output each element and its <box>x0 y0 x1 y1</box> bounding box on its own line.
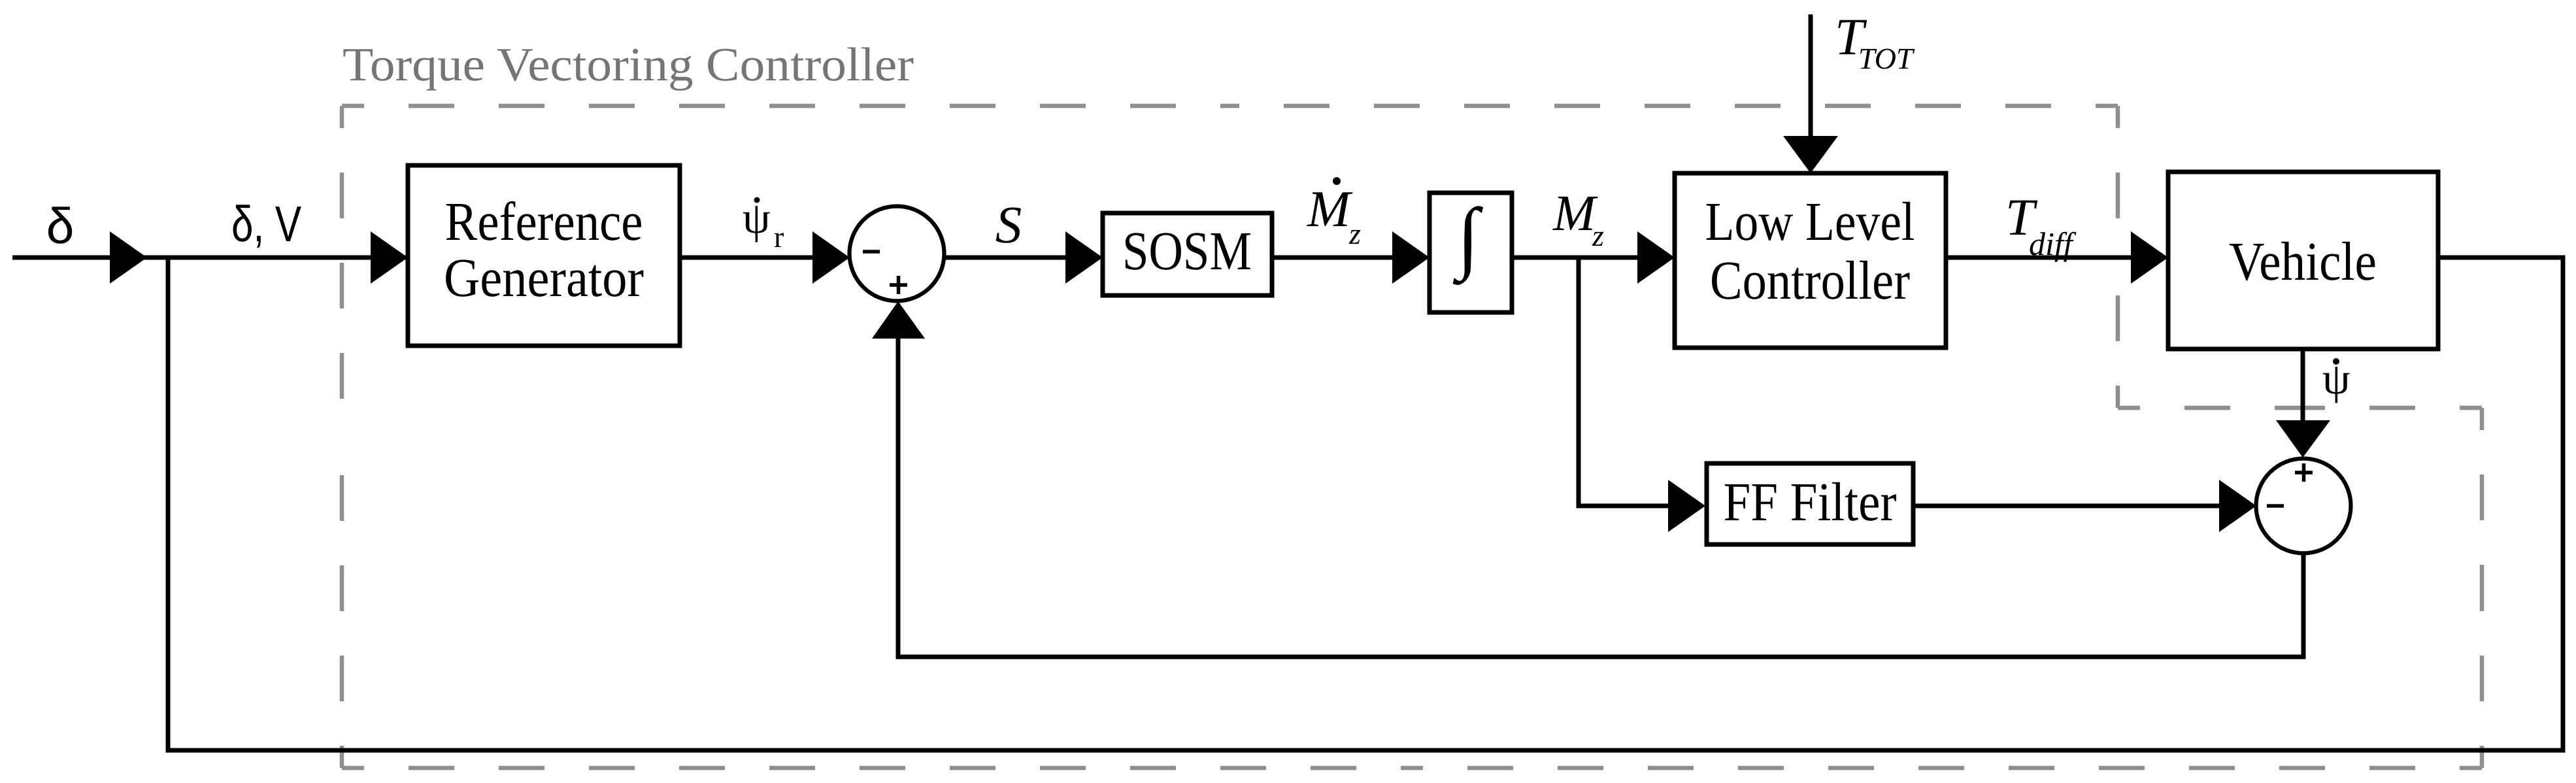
wire integrator to Low Level Controller <box>1512 256 1644 260</box>
arrowhead into summing junction S2 <box>2219 480 2256 532</box>
label S <box>995 195 1022 254</box>
arrowhead into summing junction S1 <box>812 231 850 284</box>
title Torque Vectoring Controller <box>343 38 914 91</box>
node junction delta,V tap <box>166 258 171 750</box>
wire S1 to SOSM <box>944 256 1072 260</box>
label psidot <box>2322 354 2350 403</box>
arrowhead inline on delta line <box>110 231 147 284</box>
wire outer feedback loop bottom <box>166 748 2564 753</box>
wire Reference Generator to summing junction S1 <box>680 256 817 260</box>
svg-text:SOSM: SOSM <box>1122 221 1252 282</box>
minus sign S2 <box>2267 504 2284 508</box>
label delta <box>46 198 75 254</box>
label M_z <box>1552 184 1604 252</box>
wire SOSM to integrator <box>1272 256 1399 260</box>
arrowhead into SOSM <box>1065 231 1103 284</box>
wire FF Filter to summing junction S2 <box>1913 504 2226 508</box>
arrowhead psidot into summing junction S2 <box>2276 420 2330 458</box>
block SOSM <box>1103 213 1272 295</box>
svg-text:z: z <box>1592 219 1604 252</box>
wire Vehicle psidot output down <box>2301 349 2305 425</box>
svg-text:r: r <box>774 220 784 254</box>
wire S2 output feedback to S1 <box>898 339 2303 657</box>
plus sign S1 <box>890 276 907 294</box>
svg-text:z: z <box>1348 217 1361 250</box>
svg-text:Torque Vectoring Controller: Torque Vectoring Controller <box>343 38 914 91</box>
svg-text:Vehicle: Vehicle <box>2229 231 2377 292</box>
label T_TOT <box>1835 8 1915 75</box>
svg-text:FF Filter: FF Filter <box>1724 472 1897 533</box>
wire T_TOT input <box>1809 14 1813 141</box>
block FF Filter <box>1707 463 1913 544</box>
block Reference Generator <box>408 165 680 346</box>
label delta, V <box>231 196 301 252</box>
svg-text:diff: diff <box>2029 225 2077 262</box>
plus sign S2 <box>2295 463 2313 482</box>
arrowhead into Low Level Controller <box>1637 231 1675 284</box>
label Mdot_z <box>1307 177 1361 250</box>
svg-text:Reference: Reference <box>445 192 643 252</box>
block integrator <box>1430 192 1512 312</box>
arrowhead into integrator <box>1392 231 1430 284</box>
wire outer feedback loop right (vehicle output return) <box>2438 258 2563 753</box>
block Vehicle <box>2168 172 2438 349</box>
node junction M_z tap <box>1577 258 1581 506</box>
arrowhead into FF Filter <box>1668 480 1705 532</box>
wire delta input line <box>12 256 406 260</box>
summing junction S2 <box>2256 459 2351 554</box>
svg-text:S: S <box>995 195 1022 254</box>
arrowhead T_TOT into Low Level Controller <box>1783 136 1838 173</box>
svg-text:Low Level: Low Level <box>1705 192 1915 252</box>
arrowhead into Reference Generator <box>371 231 408 284</box>
wire Low Level Controller to Vehicle <box>1946 256 2137 260</box>
label psidot_r <box>743 193 784 254</box>
wire M_z tap to FF Filter <box>1577 504 1675 508</box>
block Low Level Controller <box>1675 173 1946 348</box>
svg-text:Generator: Generator <box>444 248 644 308</box>
label T_diff <box>2005 189 2077 262</box>
svg-text:M: M <box>1552 184 1598 241</box>
svg-text:TOT: TOT <box>1858 42 1915 75</box>
svg-text:Controller: Controller <box>1710 250 1910 311</box>
svg-text:δ: δ <box>46 198 75 254</box>
dashed boundary Torque Vectoring Controller <box>342 106 2482 768</box>
svg-text:∫: ∫ <box>1452 192 1483 285</box>
svg-text:M: M <box>1307 181 1353 238</box>
svg-text:δ, V: δ, V <box>231 196 301 252</box>
arrowhead feedback into S1 plus input <box>872 301 925 339</box>
summing junction S1 <box>850 207 945 301</box>
arrowhead into Vehicle <box>2131 231 2168 284</box>
minus sign S1 <box>863 250 880 254</box>
